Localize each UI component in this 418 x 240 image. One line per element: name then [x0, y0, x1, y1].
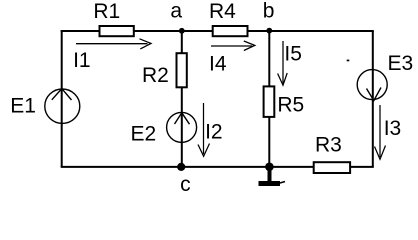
current arrow I5 — [278, 41, 288, 85]
voltage source E3 — [357, 70, 387, 101]
current arrow I1 — [76, 39, 151, 49]
wire middle branch (R2/E2, node a to node c) — [181, 31, 183, 167]
wire top (node a-b top rail) — [61, 30, 374, 32]
svg-text:I2: I2 — [205, 121, 223, 144]
ground junction dot — [265, 163, 274, 172]
current arrow I3 — [375, 105, 386, 159]
svg-text:I5: I5 — [284, 42, 302, 65]
svg-text:E3: E3 — [388, 52, 414, 75]
svg-text:c: c — [180, 173, 191, 194]
svg-text:R2: R2 — [142, 64, 169, 87]
wire R5 branch (node b to ground junction) — [268, 31, 270, 167]
wire bottom (node c rail) — [61, 166, 374, 168]
voltage source E1 — [45, 89, 80, 124]
svg-text:R4: R4 — [209, 0, 236, 23]
svg-text:b: b — [263, 0, 275, 23]
svg-text:a: a — [170, 0, 182, 23]
resistor R2 — [177, 53, 187, 87]
resistor R5 — [264, 86, 275, 117]
node a junction dot — [179, 28, 185, 34]
wire left (E1 branch) — [61, 30, 63, 167]
voltage source E2 — [167, 112, 197, 142]
node c junction dot — [177, 163, 185, 171]
current arrow I2 — [198, 103, 210, 156]
wire right (E3 branch) — [372, 31, 374, 167]
resistor R3 — [314, 162, 350, 173]
stray ink speck — [347, 60, 350, 62]
svg-text:R1: R1 — [93, 0, 120, 23]
resistor R1 — [100, 26, 134, 36]
svg-text:R5: R5 — [277, 94, 304, 117]
current arrow I4 — [211, 41, 255, 51]
svg-text:R3: R3 — [315, 134, 342, 157]
svg-text:E1: E1 — [10, 94, 36, 117]
svg-text:I1: I1 — [73, 49, 91, 72]
svg-text:I3: I3 — [384, 117, 402, 140]
ground — [259, 168, 286, 184]
svg-text:E2: E2 — [131, 123, 157, 146]
node b junction dot — [266, 28, 272, 34]
resistor R4 — [213, 26, 248, 36]
svg-text:I4: I4 — [209, 53, 227, 76]
